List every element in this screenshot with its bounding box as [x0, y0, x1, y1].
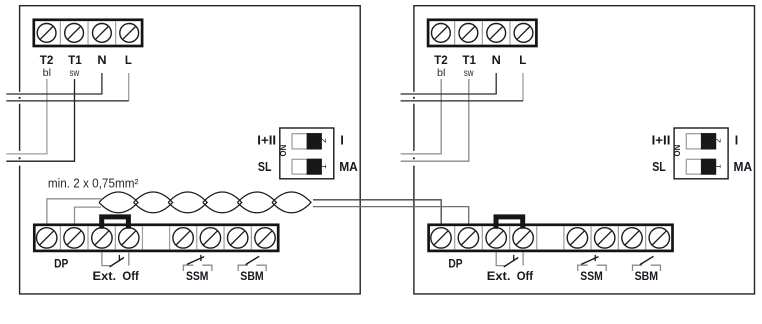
svg-text:MA: MA	[734, 160, 753, 174]
wire N pump 2: from terminal N out through left wall	[401, 73, 497, 94]
svg-text:DP: DP	[448, 257, 462, 271]
cable entry dot: mains cable through enclosure wall (pump 1)	[19, 97, 21, 99]
svg-text:SL: SL	[258, 160, 272, 174]
terminal strip X2 (DP / Ext.Off / SSM / SBM) pump 1	[34, 225, 278, 251]
screw terminal T2 pump 1	[37, 24, 56, 43]
wire L horizontal to mains pump 1	[6, 100, 128, 102]
svg-text:SSM: SSM	[186, 269, 208, 283]
DIP slider 1 (bottom, set right) pump 1	[292, 159, 321, 174]
svg-text:L: L	[125, 53, 132, 67]
svg-text:Off: Off	[122, 269, 139, 283]
screw terminal DP-a pump 1	[37, 228, 57, 248]
screw terminal SBM-a pump 1	[228, 228, 248, 248]
wire T2 (bl) pump 1: from terminal T2 out through left wall	[6, 79, 47, 154]
screw terminal T2 pump 2	[432, 24, 451, 43]
svg-text:2: 2	[714, 138, 723, 143]
cable entry dot: control cable through enclosure wall (pump 1)	[19, 157, 21, 159]
svg-text:Off: Off	[517, 269, 534, 283]
svg-text:T1: T1	[68, 53, 82, 67]
screw terminal Ext.Off-b pump 1	[119, 228, 139, 248]
SBM relay contact symbol pump 1	[238, 265, 266, 271]
wire T1 (sw) pump 2: from terminal T1 out through left wall	[401, 79, 469, 161]
wire L vertical (grey) pump 1	[128, 73, 130, 101]
SSM relay contact symbol pump 1	[183, 265, 212, 271]
screw terminal L pump 1	[120, 24, 139, 43]
svg-text:Ext.: Ext.	[93, 269, 117, 283]
SBM relay contact symbol pump 2	[633, 265, 661, 271]
screw terminal DP-b pump 1	[64, 228, 84, 248]
svg-text:SBM: SBM	[635, 269, 658, 283]
wire L vertical (grey) pump 2	[522, 73, 524, 101]
screw terminal SSM-a pump 1	[173, 228, 193, 248]
svg-text:I+II: I+II	[257, 134, 276, 148]
svg-text:I: I	[340, 134, 343, 148]
screw terminal SSM-a pump 2	[567, 228, 587, 248]
svg-text:bl: bl	[437, 68, 445, 79]
enclosure: pump module 1 housing	[20, 6, 361, 294]
svg-text:1: 1	[714, 164, 723, 169]
svg-text:Ext.: Ext.	[487, 269, 511, 283]
svg-text:MA: MA	[339, 160, 358, 174]
screw terminal Ext.Off-a pump 1	[92, 228, 112, 248]
wire L horizontal to mains pump 2	[401, 100, 523, 102]
svg-text:T2: T2	[40, 53, 54, 67]
wire: DP conductor A pump2 side (cable to terminal DP-a pump 2)	[313, 200, 441, 224]
svg-text:2: 2	[319, 138, 328, 143]
screw terminal Ext.Off-a pump 2	[486, 228, 506, 248]
screw terminal T1 pump 1	[65, 24, 84, 43]
screw terminal SBM-b pump 2	[649, 228, 669, 248]
jumper bridge across Ext.Off terminals pump 2	[496, 217, 523, 229]
screw terminal T1 pump 2	[459, 24, 478, 43]
SSM relay contact symbol pump 2	[578, 265, 607, 271]
screw terminal DP-a pump 2	[431, 228, 451, 248]
Ext.Off external switch symbol pump 2	[496, 252, 523, 265]
svg-text:T1: T1	[462, 53, 476, 67]
screw terminal DP-b pump 2	[458, 228, 478, 248]
wire: DP conductor B pump2 side (cable to terminal DP-b pump 2)	[313, 207, 469, 224]
svg-text:T2: T2	[434, 53, 448, 67]
cable entry dot: mains cable through enclosure wall (pump 2)	[413, 97, 415, 99]
svg-text:min. 2 x 0,75mm²: min. 2 x 0,75mm²	[48, 177, 138, 191]
terminal strip X2 (DP / Ext.Off / SSM / SBM) pump 2	[429, 225, 673, 251]
svg-text:N: N	[492, 53, 501, 67]
screw terminal SSM-b pump 1	[200, 228, 220, 248]
wire T2 (bl) pump 2: from terminal T2 out through left wall	[401, 79, 442, 154]
DIP slider 1 (bottom, set right) pump 2	[686, 159, 715, 174]
twisted pair cable symbol (6 twists)	[99, 192, 311, 213]
terminal block X1 (T2 T1 N L) pump 1	[34, 20, 142, 46]
svg-text:N: N	[97, 53, 106, 67]
screw terminal SBM-b pump 1	[255, 228, 275, 248]
svg-text:SSM: SSM	[580, 269, 602, 283]
svg-text:ON: ON	[279, 144, 288, 156]
jumper bridge across Ext.Off terminals pump 1	[102, 217, 129, 229]
svg-text:1: 1	[319, 164, 328, 169]
svg-text:SL: SL	[652, 160, 666, 174]
terminal block X1 (T2 T1 N L) pump 2	[428, 20, 536, 46]
svg-text:I: I	[735, 134, 738, 148]
svg-text:L: L	[519, 53, 526, 67]
svg-text:sw: sw	[70, 68, 80, 79]
wire: DP conductor B pump1 side (terminal DP-b up to cable)	[75, 207, 102, 223]
DIP slider 2 (top, set right) pump 1	[292, 134, 321, 149]
svg-text:bl: bl	[43, 68, 51, 79]
screw terminal SBM-a pump 2	[622, 228, 642, 248]
wire N pump 1: from terminal N out through left wall	[6, 73, 102, 94]
svg-text:SBM: SBM	[240, 269, 263, 283]
svg-text:I+II: I+II	[652, 134, 671, 148]
screw terminal N pump 2	[487, 24, 506, 43]
screw terminal L pump 2	[514, 24, 533, 43]
screw terminal N pump 1	[93, 24, 112, 43]
enclosure: pump module 2 housing	[414, 6, 755, 294]
wire: DP conductor A pump1 side (terminal DP-a up to cable)	[47, 199, 101, 224]
screw terminal SSM-b pump 2	[595, 228, 615, 248]
DIP switch S1 housing pump 1	[280, 128, 334, 179]
wire T1 (sw) pump 1: from terminal T1 out through left wall	[6, 79, 74, 161]
svg-text:ON: ON	[673, 144, 682, 156]
DIP switch S1 housing pump 2	[674, 128, 728, 179]
DIP slider 2 (top, set right) pump 2	[686, 134, 715, 149]
svg-text:DP: DP	[54, 257, 68, 271]
svg-text:sw: sw	[464, 68, 474, 79]
cable entry dot: control cable through enclosure wall (pump 2)	[413, 157, 415, 159]
screw terminal Ext.Off-b pump 2	[513, 228, 533, 248]
Ext.Off external switch symbol pump 1	[102, 252, 129, 265]
